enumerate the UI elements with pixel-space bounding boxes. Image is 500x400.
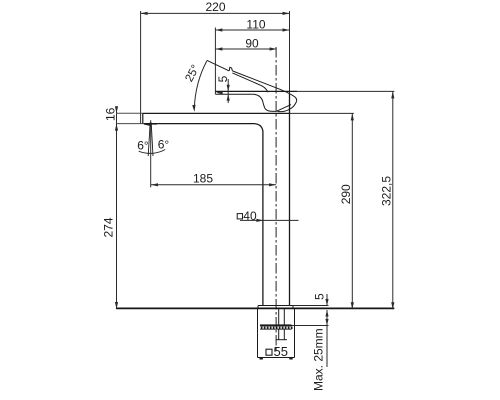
clamping nut left edge [278,329,280,340]
dim 220 line [141,12,290,15]
base plate top edge [258,305,293,307]
dim 290 dimension line [351,113,354,309]
base plate right edge [292,306,294,309]
svg-text:185: 185 [193,172,213,186]
under-counter mounting box left edge [257,308,259,357]
spout underside curve to mouth [254,94,276,111]
under-counter mounting box right edge [294,308,296,357]
riser centerline [275,47,277,352]
svg-text:220: 220 [205,0,225,14]
right extension line x=289.5 (220/110 reference, faucet right edge above head) [289,11,291,94]
base plate left edge [257,306,259,309]
aerator face diagonal [276,105,291,112]
dim 5 (lever step) dimension line [227,79,230,103]
label □40 square symbol [237,214,242,219]
svg-text:274: 274 [102,217,116,237]
under-counter mounting box bottom edge [258,357,295,359]
dim 16 upper extension line [117,112,143,114]
lever top edge L1 [207,60,229,71]
dim 5 (plate) extension line [293,305,329,307]
faucet arm top edge [143,112,290,114]
clamping nut bottom edge [277,339,288,341]
svg-text:55: 55 [274,344,288,359]
6° taper right edge [151,123,153,157]
faucet arm back edge [142,113,144,123]
dim 90 line [215,47,276,50]
label □40 leader line [240,219,299,222]
dim 322,5 dimension line [391,91,394,309]
dim 25° arc with arrow [192,61,207,112]
svg-text:16: 16 [103,107,117,121]
threaded stud left edge [278,308,280,324]
threaded stud right edge [283,308,285,324]
faucet riser right edge [289,94,291,306]
dim 16/274 shared dimension line [115,106,118,309]
svg-text:40: 40 [243,209,257,223]
clamping nut right edge [283,329,285,340]
gasket hatch band [260,327,293,330]
clamping washer plate [260,324,292,326]
svg-text:290: 290 [339,184,353,204]
svg-text:6°: 6° [158,138,170,152]
dim 110 left extension line [214,28,216,95]
faucet arm bottom edge with front rounded corner into riser [144,124,263,306]
label □55 square symbol [266,349,272,355]
svg-text:5: 5 [216,75,230,82]
dim 16 lower extension line [117,123,145,125]
dim 290 top extension line [290,112,354,114]
6° taper left edge [148,123,150,157]
mounting box foot left [260,358,263,360]
dim 185 line [151,183,276,186]
lever top step [229,67,232,71]
svg-text:110: 110 [246,18,265,32]
svg-text:90: 90 [245,37,259,51]
washer extension line to Max dim [292,325,329,327]
arm bottom left arrowhead [144,123,151,126]
svg-text:Max. 25mm: Max. 25mm [312,328,326,391]
dim Max.25mm dimension line [325,310,328,367]
svg-text:322,5: 322,5 [380,176,394,206]
svg-text:6°: 6° [137,139,149,153]
lever underside edge L2 [232,73,268,92]
spout tip outline [232,71,296,112]
mounting box foot right [289,358,292,360]
counter top line [116,307,394,309]
dim 220 left extension line [140,11,142,123]
faucet head top edge [215,90,297,92]
dim 5 (plate) dimension line [325,294,328,306]
svg-text:25°: 25° [183,63,202,84]
dim 322,5 top extension line [297,90,394,92]
dim 5 side arrow at head top pair [216,91,223,94]
svg-text:5: 5 [313,293,327,300]
arm bottom left short bar [144,123,157,125]
dim 110 line [215,28,289,31]
6° angle arc [139,150,166,154]
6° taper centerline and 185 extension [150,120,152,187]
faucet head 5mm step line [215,93,254,95]
